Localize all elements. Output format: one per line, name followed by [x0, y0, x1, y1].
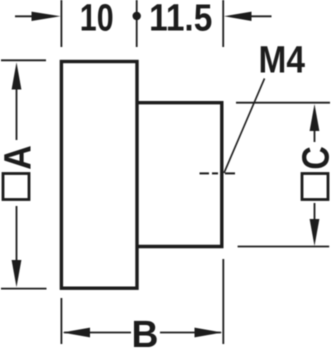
svg-text:11.5: 11.5 — [149, 0, 212, 39]
svg-text:A: A — [0, 145, 39, 170]
extension line B left — [60, 298, 62, 344]
arrowhead C up — [310, 104, 320, 131]
arrowhead A down — [12, 260, 22, 287]
arrowhead A up — [12, 62, 22, 89]
svg-text:C: C — [295, 146, 331, 169]
A dimension line upper — [16, 86, 18, 140]
dimension arrow tail top-right — [250, 15, 272, 17]
step cylinder (right body) — [137, 103, 222, 247]
A dimension line lower — [16, 206, 18, 263]
square symbol for A — [3, 174, 29, 200]
dimension dot middle — [133, 12, 141, 20]
svg-text:M4: M4 — [258, 39, 305, 81]
arrowhead C down — [310, 219, 320, 246]
extension line right (top dim 11.5) — [222, 0, 224, 47]
centerline (thread axis) dashes — [200, 172, 236, 174]
extension line middle (top dim) — [136, 0, 138, 47]
svg-text:10: 10 — [80, 0, 114, 40]
main body rectangle — [61, 62, 137, 289]
B dimension line left segment — [64, 332, 131, 334]
extension line B right — [222, 259, 224, 344]
arrowhead B right — [195, 328, 223, 338]
extension tick A bottom — [1, 288, 47, 290]
extension line C top — [236, 102, 330, 104]
extension tick A top — [1, 59, 46, 61]
C dimension line lower — [314, 203, 316, 221]
extension line C bottom — [238, 246, 330, 248]
B dimension line right segment — [160, 332, 221, 334]
svg-text:B: B — [132, 313, 159, 350]
square symbol for C — [302, 174, 328, 200]
leader line M4 — [224, 79, 265, 174]
extension line left (top dim 10) — [60, 0, 62, 47]
arrowhead B left — [62, 328, 90, 338]
arrowhead top-right (points left) — [224, 12, 252, 21]
dimension arrow tail top-left — [15, 15, 36, 17]
C dimension line upper — [314, 129, 316, 142]
arrowhead top-left (points right) — [32, 12, 61, 21]
